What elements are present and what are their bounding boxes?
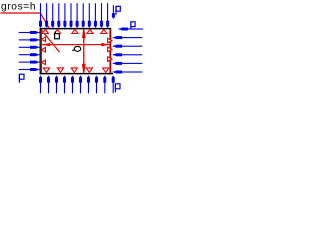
plate black outline <box>40 28 114 74</box>
interior diagonal <box>40 29 59 52</box>
bottom stress triangles <box>43 68 49 73</box>
top pressure arrows <box>39 3 109 28</box>
label b rotated <box>72 46 80 51</box>
label p right <box>131 22 135 29</box>
leader underline <box>1 12 41 14</box>
top stress triangles <box>42 29 48 33</box>
label a <box>55 31 60 38</box>
bottom pressure arrows <box>39 76 115 94</box>
dimension line b <box>82 29 86 72</box>
svg-text:gros=h: gros=h <box>1 2 36 13</box>
left stress triangles <box>41 37 45 42</box>
short top corner arrow <box>112 5 115 19</box>
dimension line a <box>42 43 110 46</box>
left pressure arrows <box>19 31 40 71</box>
plate red inner outline <box>41 29 43 73</box>
right pressure arrows <box>113 28 148 74</box>
right stress triangles <box>108 38 112 43</box>
label p bottom left <box>19 74 24 83</box>
label p bottom right <box>115 84 120 92</box>
leader diagonal <box>41 13 50 28</box>
label p top right <box>116 6 120 15</box>
